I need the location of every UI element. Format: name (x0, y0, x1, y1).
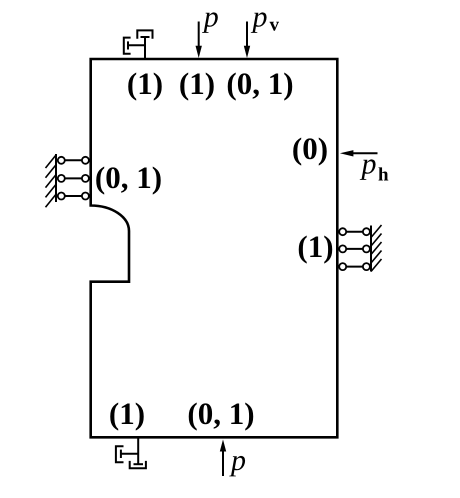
roller support (left edge): hatching (46, 155, 57, 207)
guided support (top edge): horizontal T-in-bracket glyph (124, 38, 145, 54)
svg-text:(1): (1) (127, 66, 163, 101)
svg-text:p: p (229, 444, 246, 477)
svg-text:(0, 1): (0, 1) (187, 396, 254, 431)
guided support (top edge): vertical T-in-bracket glyph (137, 30, 152, 58)
svg-text:(0, 1): (0, 1) (226, 66, 293, 101)
roller support (right edge): three links with hinge circles (338, 232, 371, 267)
roller support (left edge): three links with hinge circles (56, 160, 90, 196)
roller support (right edge): hatching (371, 225, 382, 272)
load arrow p_h (right edge, pointing left) (340, 150, 378, 156)
plate outline with quarter-circle notch on left edge (91, 59, 338, 437)
load arrow p (top, left) (196, 22, 202, 59)
svg-text:(0): (0) (292, 131, 328, 166)
roller support (left edge): wall line (55, 154, 57, 202)
svg-text:p: p (251, 0, 268, 33)
svg-text:h: h (378, 165, 389, 186)
svg-text:(1): (1) (109, 396, 145, 431)
guided support (bottom edge): horizontal T-in-bracket glyph (116, 446, 138, 462)
svg-text:(1): (1) (179, 66, 215, 101)
svg-text:p: p (202, 0, 219, 33)
svg-text:v: v (270, 14, 280, 35)
svg-text:(0, 1): (0, 1) (95, 160, 162, 195)
load arrow p_v (top, right) (244, 22, 250, 59)
load arrow p (bottom, pointing up) (220, 440, 226, 477)
svg-text:p: p (360, 147, 377, 180)
guided support (bottom edge): vertical T-in-bracket glyph (130, 438, 146, 469)
roller support (right edge): wall line (370, 226, 372, 272)
svg-text:(1): (1) (297, 229, 333, 264)
